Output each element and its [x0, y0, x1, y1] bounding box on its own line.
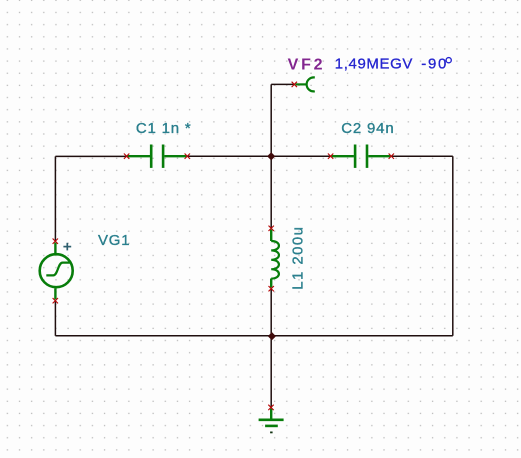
- svg-text:-90: -90: [421, 56, 448, 73]
- svg-text:VG1: VG1: [98, 232, 130, 249]
- svg-text:VF2: VF2: [288, 56, 326, 73]
- svg-text:1,49MEGV: 1,49MEGV: [335, 56, 413, 73]
- svg-text:C1 1n *: C1 1n *: [136, 120, 192, 137]
- svg-text:C2 94n: C2 94n: [341, 120, 394, 137]
- svg-text:L1 200u: L1 200u: [289, 226, 306, 290]
